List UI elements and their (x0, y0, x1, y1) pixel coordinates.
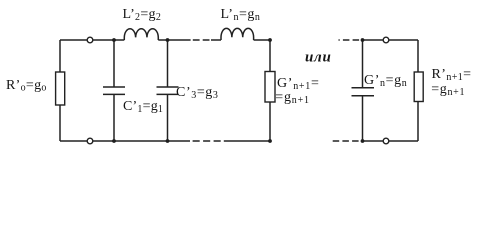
wire: bottom rail solid segment 2 (224, 140, 270, 142)
svg-text:C’1=g1: C’1=g1 (123, 99, 163, 115)
wire: left vertical of left ladder (59, 40, 61, 141)
inductor L'n (221, 28, 254, 40)
wire: top rail solid segment 3 (211, 39, 221, 41)
wire: right circuit top dashed lead (339, 39, 361, 41)
capacitor C'3 plates (157, 87, 179, 94)
capacitor G'n plates (352, 88, 375, 96)
svg-text:C’3=g3: C’3=g3 (176, 85, 219, 101)
svg-text:L’n=gn: L’n=gn (221, 7, 261, 23)
wire: top rail solid segment 1 (60, 39, 124, 41)
junction node top C'1 (112, 38, 116, 42)
junction node bottom C'1 (112, 139, 116, 143)
svg-text:G’n=gn: G’n=gn (364, 73, 407, 89)
capacitor G'n wires (362, 40, 364, 141)
capacitor C'1 plates (103, 87, 125, 94)
svg-text:или: или (305, 50, 331, 66)
wire: right circuit right vertical (417, 40, 419, 141)
junction node bottom C'3 (166, 139, 170, 143)
capacitor C'3 wires (167, 40, 169, 141)
wire: top rail solid segment 4 (254, 39, 270, 41)
resistor G'n+1 body (265, 72, 275, 103)
junction node top C'3 (166, 38, 170, 42)
wire: G'n+1 branch vertical (269, 40, 271, 141)
terminal circle right-circuit bottom (383, 138, 389, 144)
wire: right circuit top rail (363, 39, 419, 41)
svg-text:R’o=go: R’o=go (6, 78, 47, 94)
wire: bottom rail dashed break (193, 140, 221, 142)
terminal circle right-circuit top (383, 37, 389, 43)
resistor R'0 body (56, 72, 65, 105)
wire: right circuit bottom dashed lead (333, 140, 360, 142)
wire: top rail solid segment 2 (158, 39, 190, 41)
junction node bottom G'n+1 (268, 139, 272, 143)
wire: right circuit bottom rail (363, 140, 419, 142)
terminal circle bottom-left (87, 138, 93, 144)
terminal circle top-left (87, 37, 93, 43)
svg-text:L’2=g2: L’2=g2 (123, 7, 162, 23)
junction node top G'n+1 (268, 38, 272, 42)
resistor R'n+1 body (414, 72, 423, 102)
wire: top rail dashed break (193, 39, 211, 41)
junction node right-circuit top (361, 38, 365, 42)
junction node right-circuit bottom (361, 139, 365, 143)
capacitor C'1 wires (113, 40, 115, 141)
wire: bottom rail solid segment 1 (60, 140, 190, 142)
inductor L'2 (124, 29, 158, 40)
